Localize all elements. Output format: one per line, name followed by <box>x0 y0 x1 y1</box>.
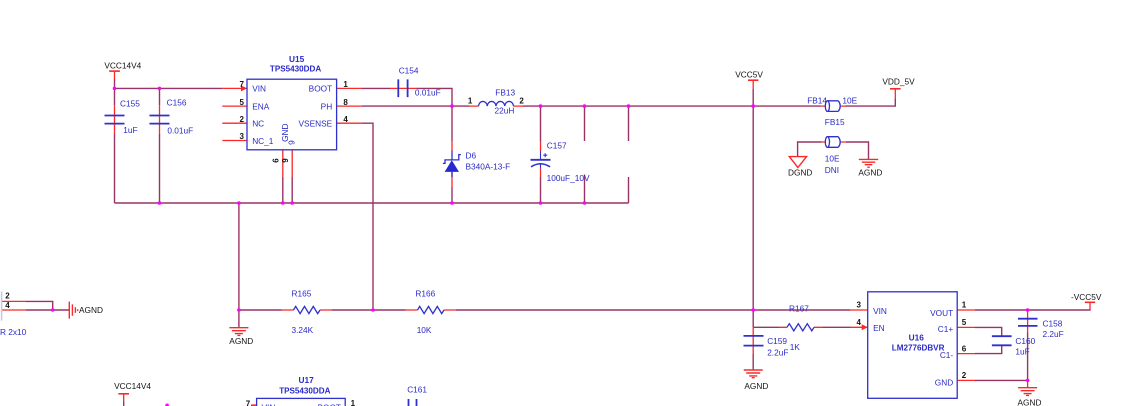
svg-text:BOOT: BOOT <box>317 403 341 406</box>
svg-text:6: 6 <box>962 344 967 353</box>
svg-text:22uH: 22uH <box>495 105 515 115</box>
svg-text:C159: C159 <box>767 336 787 346</box>
svg-text:EN: EN <box>873 323 885 333</box>
svg-text:VDD_5V: VDD_5V <box>882 77 915 87</box>
svg-text:1: 1 <box>468 97 473 106</box>
svg-text:2: 2 <box>5 292 10 301</box>
svg-text:VCC14V4: VCC14V4 <box>104 61 141 71</box>
svg-text:GND: GND <box>935 378 953 388</box>
svg-text:D6: D6 <box>466 151 477 161</box>
svg-text:U17: U17 <box>299 375 315 385</box>
svg-text:2: 2 <box>519 97 524 106</box>
svg-text:VOUT: VOUT <box>930 308 953 318</box>
svg-text:GND: GND <box>280 123 290 141</box>
svg-text:AGND: AGND <box>858 168 882 178</box>
svg-text:BOOT: BOOT <box>309 84 333 94</box>
svg-text:9: 9 <box>281 158 290 163</box>
svg-text:FB14: FB14 <box>807 96 827 106</box>
svg-text:2: 2 <box>962 371 967 380</box>
svg-text:1uF: 1uF <box>1015 347 1029 357</box>
svg-text:1: 1 <box>343 80 348 89</box>
svg-text:2.2uF: 2.2uF <box>767 347 788 357</box>
svg-text:10E: 10E <box>825 153 840 163</box>
svg-text:3.24K: 3.24K <box>292 325 314 335</box>
svg-text:AGND: AGND <box>1018 398 1042 406</box>
svg-text:VCC5V: VCC5V <box>735 70 763 80</box>
svg-text:LM2776DBVR: LM2776DBVR <box>892 343 945 352</box>
svg-text:B340A-13-F: B340A-13-F <box>466 161 511 171</box>
svg-text:6: 6 <box>272 158 281 163</box>
svg-text:4: 4 <box>5 301 10 310</box>
svg-text:R165: R165 <box>292 288 312 298</box>
svg-text:C1-: C1- <box>940 350 954 360</box>
svg-text:4: 4 <box>857 318 862 327</box>
svg-text:AGND: AGND <box>744 381 768 391</box>
svg-text:FB13: FB13 <box>495 88 515 98</box>
svg-text:C156: C156 <box>167 97 187 107</box>
svg-text:3: 3 <box>240 132 245 141</box>
svg-text:R 2x10: R 2x10 <box>0 327 27 337</box>
svg-text:AGND: AGND <box>79 305 103 315</box>
svg-text:1: 1 <box>351 399 356 406</box>
svg-text:TPS5430DDA: TPS5430DDA <box>279 386 330 395</box>
svg-text:VIN: VIN <box>873 306 887 316</box>
svg-text:AGND: AGND <box>229 336 253 346</box>
svg-text:C157: C157 <box>547 141 567 151</box>
svg-text:C1+: C1+ <box>938 324 954 334</box>
svg-text:NC_1: NC_1 <box>252 136 274 146</box>
svg-text:1: 1 <box>962 300 967 309</box>
svg-text:U16: U16 <box>909 332 925 342</box>
svg-text:10K: 10K <box>417 325 432 335</box>
svg-text:4: 4 <box>343 115 348 124</box>
svg-text:VIN: VIN <box>252 84 266 94</box>
svg-text:R167: R167 <box>789 304 809 314</box>
svg-text:R166: R166 <box>415 288 435 298</box>
svg-text:ENA: ENA <box>252 101 270 111</box>
svg-text:NC: NC <box>252 119 264 129</box>
svg-text:VIN: VIN <box>262 403 276 406</box>
svg-text:TPS5430DDA: TPS5430DDA <box>270 64 321 73</box>
svg-text:2.2uF: 2.2uF <box>1043 329 1064 339</box>
svg-text:DGND: DGND <box>788 168 812 178</box>
svg-text:1uF: 1uF <box>123 125 137 135</box>
svg-text:U15: U15 <box>289 54 305 64</box>
svg-text:100uF_10V: 100uF_10V <box>547 173 590 183</box>
svg-text:-VCC5V: -VCC5V <box>1071 292 1102 302</box>
svg-text:FB15: FB15 <box>825 117 845 127</box>
svg-text:3: 3 <box>857 300 862 309</box>
svg-text:C155: C155 <box>120 98 140 108</box>
svg-text:5: 5 <box>240 98 245 107</box>
svg-text:1K: 1K <box>790 342 801 352</box>
svg-text:0.01uF: 0.01uF <box>415 88 441 98</box>
svg-text:7: 7 <box>246 399 251 406</box>
svg-text:9: 9 <box>287 140 297 145</box>
svg-text:C160: C160 <box>1015 336 1035 346</box>
svg-text:5: 5 <box>962 318 967 327</box>
svg-text:2: 2 <box>240 115 245 124</box>
svg-text:VSENSE: VSENSE <box>299 119 333 129</box>
svg-text:7: 7 <box>240 80 245 89</box>
svg-text:VCC14V4: VCC14V4 <box>114 381 151 391</box>
svg-text:8: 8 <box>343 98 348 107</box>
svg-text:10E: 10E <box>842 96 857 106</box>
svg-text:PH: PH <box>321 101 333 111</box>
svg-text:0.01uF: 0.01uF <box>167 125 193 135</box>
svg-text:C161: C161 <box>407 384 427 394</box>
svg-text:C154: C154 <box>399 66 419 76</box>
svg-text:DNI: DNI <box>825 165 839 175</box>
svg-text:C158: C158 <box>1043 319 1063 329</box>
